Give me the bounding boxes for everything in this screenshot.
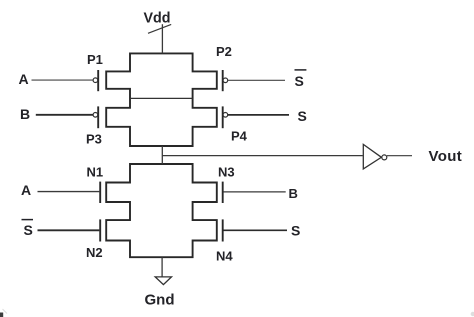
svg-text:N4: N4 <box>216 249 233 264</box>
svg-text:P4: P4 <box>231 129 248 144</box>
svg-text:P2: P2 <box>216 44 232 59</box>
svg-text:S: S <box>24 222 33 238</box>
svg-text:Gnd: Gnd <box>145 291 175 308</box>
svg-text:S: S <box>295 73 304 89</box>
svg-text:A: A <box>21 182 31 198</box>
svg-text:Vout: Vout <box>429 148 463 165</box>
svg-text:Vdd: Vdd <box>144 11 171 27</box>
svg-text:P3: P3 <box>86 132 102 147</box>
svg-text:N3: N3 <box>218 165 235 180</box>
svg-text:A: A <box>19 71 29 87</box>
svg-text:N2: N2 <box>86 245 103 260</box>
svg-text:B: B <box>20 106 30 122</box>
svg-text:B: B <box>289 186 298 201</box>
svg-text:P1: P1 <box>87 52 103 67</box>
svg-text:N1: N1 <box>87 165 104 180</box>
svg-text:S: S <box>291 223 300 239</box>
svg-text:S: S <box>298 108 307 124</box>
